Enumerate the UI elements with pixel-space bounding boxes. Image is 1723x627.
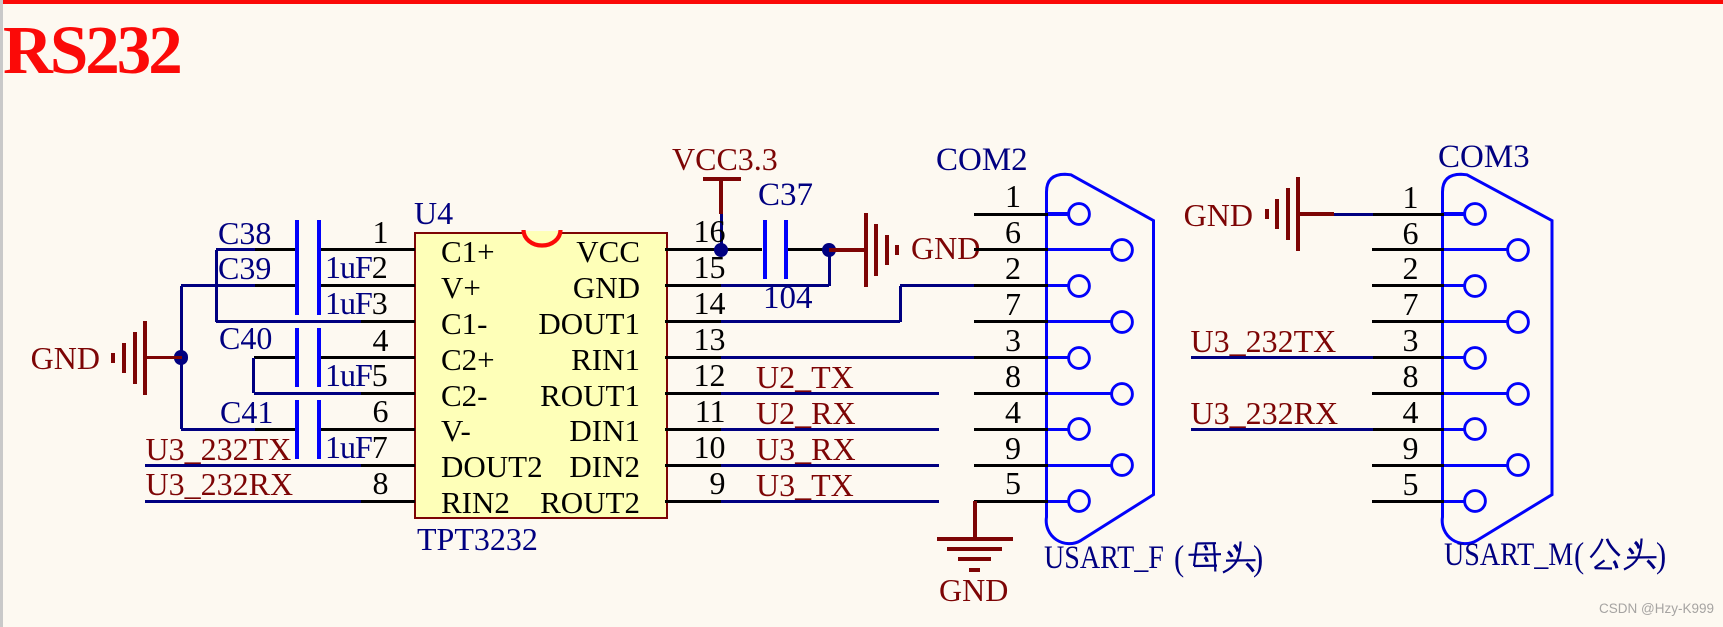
COM2 contact circle row 2 — [1065, 272, 1093, 300]
label C38 — [218, 217, 271, 249]
COM2 pin number 4 — [1005, 396, 1021, 428]
COM2 pin stub row 3 — [974, 320, 1048, 323]
COM3 pin number 3 — [1403, 324, 1419, 356]
COM2 contact circle row 0 — [1065, 200, 1093, 228]
COM3 pin number 2 — [1403, 252, 1419, 284]
value C41 1uF + pin number 7 — [325, 431, 387, 463]
COM3 pin number 9 — [1403, 432, 1419, 464]
value TPT3232 — [417, 523, 538, 555]
connector COM2 outline — [1030, 160, 1170, 560]
ground port middle GND — [829, 248, 864, 252]
COM3 contact circle row 7 — [1504, 451, 1532, 479]
net label U3_232RX right — [1191, 397, 1339, 429]
power port VCC3.3 — [672, 143, 778, 175]
COM2 pin number 7 — [1005, 288, 1021, 320]
pin16 wire C37 to gnd junction — [788, 248, 829, 251]
wire RIN1 to COM2 pin3 — [721, 356, 976, 359]
wire U3_RX — [721, 464, 939, 467]
label C39 — [218, 252, 271, 284]
wire U3_232RX to COM3 pin4 — [1191, 428, 1373, 431]
left pin row6 inner — [321, 428, 415, 431]
ground earth COM2 pin5 — [973, 501, 977, 538]
COM3 contact circle row 4 — [1461, 344, 1489, 372]
designator U4 — [414, 197, 453, 229]
text GND middle — [911, 232, 980, 264]
net label U3_232TX right — [1191, 325, 1337, 357]
COM2 lead row 4 — [1047, 356, 1069, 359]
COM2 contact circle row 7 — [1108, 451, 1136, 479]
wire U3_TX — [721, 500, 939, 503]
label C37 — [758, 179, 813, 212]
wire C2- row — [254, 392, 361, 395]
pin name DIN1 — [569, 415, 640, 446]
wire C1- row — [216, 320, 361, 323]
COM2 pin number 8 — [1005, 360, 1021, 392]
value C39 1uF + pin number 3 — [325, 287, 387, 319]
value C40 1uF + pin number 5 — [325, 359, 387, 391]
left pin row2 outer — [254, 284, 295, 287]
COM3 pin number 1 — [1403, 181, 1419, 213]
net label U3_232RX left — [146, 468, 294, 500]
COM3 contact circle row 2 — [1461, 272, 1489, 300]
left pin row6 outer — [254, 428, 295, 431]
ground bars middle — [864, 213, 868, 287]
pin name ROUT2 — [540, 487, 640, 518]
COM2 pin number 1 — [1005, 180, 1021, 212]
wire V+ row to GND vertical — [181, 284, 255, 287]
COM3 lead row 4 — [1443, 356, 1465, 359]
pin name VCC — [576, 236, 640, 267]
COM3 pin number 4 — [1403, 396, 1419, 428]
label C41 — [220, 396, 273, 428]
COM2 lead row 7 — [1047, 464, 1112, 467]
junction left GND — [174, 350, 188, 364]
VCC3.3 bar — [703, 177, 741, 181]
COM3 contact circle row 6 — [1461, 415, 1489, 443]
ground port left GND — [31, 342, 100, 374]
pin number 14 — [694, 287, 726, 319]
COM2 contact circle row 5 — [1108, 380, 1136, 408]
right pin row2 — [665, 284, 721, 287]
COM2 pin number 3 — [1005, 324, 1021, 356]
wire U3_232RX to RIN2 — [145, 500, 361, 503]
wire U3_232TX to COM3 pin3 — [1191, 356, 1373, 359]
COM2 pin number 6 — [1005, 216, 1021, 248]
COM3 pin number 7 — [1403, 288, 1419, 320]
right pin row7 — [665, 464, 721, 467]
COM3 contact circle row 3 — [1504, 308, 1532, 336]
wire C38 left to vertical — [216, 248, 255, 251]
COM2 lead row 6 — [1047, 428, 1069, 431]
COM2 pin stub row 5 — [974, 392, 1048, 395]
pin name C1- — [441, 308, 488, 339]
wire GND to COM3 pin1 — [1334, 213, 1373, 216]
wire DOUT1 riser — [899, 286, 902, 322]
designator COM3 — [1438, 141, 1530, 174]
COM2 lead row 8 — [1047, 500, 1069, 503]
left pin row5 — [360, 392, 415, 395]
COM3 pin stub row 3 — [1372, 320, 1444, 323]
COM2 lead row 5 — [1047, 392, 1112, 395]
COM2 pin stub row 6 — [974, 428, 1048, 431]
COM2 lead row 3 — [1047, 320, 1112, 323]
pin number 6 — [373, 395, 389, 427]
pin number 15 — [694, 251, 726, 283]
junction VCC/pin16 — [714, 243, 728, 257]
left pin row8 — [360, 500, 415, 503]
capacitor C38 plates — [295, 220, 299, 279]
GND stem COM3 — [1300, 212, 1334, 216]
watermark — [1599, 602, 1714, 616]
pin name ROUT1 — [540, 380, 640, 411]
COM2 lead row 1 — [1047, 248, 1112, 251]
wire GND pin15 — [721, 284, 830, 287]
COM3 pin number 6 — [1403, 217, 1419, 249]
COM3 pin stub row 0 — [1372, 213, 1444, 216]
COM3 lead row 5 — [1443, 392, 1508, 395]
net label U2_RX — [756, 397, 856, 429]
wire U2_RX — [721, 428, 939, 431]
label USART_F(mu tou) — [1044, 542, 1164, 575]
left pin row4 outer — [254, 356, 295, 359]
left pin row4 inner — [321, 356, 415, 359]
pin number 11 — [695, 395, 726, 427]
COM2 pin stub row 0 — [974, 213, 1048, 216]
COM2 pin stub row 4 — [974, 356, 1048, 359]
COM3 lead row 2 — [1443, 284, 1465, 287]
pin number 4 — [373, 324, 389, 356]
hanzi tou — [1220, 541, 1270, 575]
label USART_M(gong tou) — [1444, 539, 1573, 572]
pin name RIN2 — [441, 487, 510, 518]
pin number 13 — [694, 323, 726, 355]
COM2 lead row 2 — [1047, 284, 1069, 287]
wire DOUT1 to COM2 pin2 — [900, 284, 975, 287]
ground bars COM3 — [1296, 177, 1300, 251]
chip notch arc — [521, 230, 563, 250]
left pin row1 outer — [254, 248, 295, 251]
COM3 pin stub row 4 — [1372, 356, 1444, 359]
COM2 pin stub row 7 — [974, 464, 1048, 467]
pin number 9 — [710, 467, 726, 499]
pin number 10 — [694, 431, 726, 463]
IC U4 TPT3232 body — [414, 232, 668, 519]
notch gap cover — [522, 231, 561, 235]
COM3 pin stub row 2 — [1372, 284, 1444, 287]
VCC3.3 stem — [719, 179, 723, 214]
ground bars left — [143, 321, 147, 395]
right pin row3 — [665, 320, 721, 323]
COM2 pin stub row 2 — [974, 284, 1048, 287]
COM3 lead row 7 — [1443, 464, 1508, 467]
junction C37 right — [822, 243, 836, 257]
COM2 contact circle row 1 — [1108, 236, 1136, 264]
COM3 lead row 8 — [1443, 500, 1465, 503]
COM3 lead row 6 — [1443, 428, 1465, 431]
COM3 lead row 0 — [1443, 212, 1465, 215]
wire riser pin15 to junction — [828, 250, 831, 286]
pin name DOUT1 — [538, 308, 640, 339]
left pin row1 inner — [321, 248, 415, 251]
wire vertical C2+ to C2- — [252, 358, 255, 394]
designator COM2 — [936, 144, 1028, 177]
hanzi gong — [1588, 537, 1628, 573]
left gray strip — [0, 0, 3, 627]
pin name C1+ — [441, 236, 495, 267]
COM2 pin stub row 1 — [974, 248, 1048, 251]
capacitor C41 plates — [295, 400, 299, 459]
top red rule — [3, 0, 1723, 4]
COM2 pin number 5 — [1005, 467, 1021, 499]
wire VCC to pin16 — [720, 214, 723, 250]
wire vertical C1+ to C1- — [215, 250, 218, 322]
net label U2_TX — [756, 361, 854, 393]
left pin row7 — [360, 464, 415, 467]
pin name V- — [441, 415, 471, 446]
pin number 8 — [373, 467, 389, 499]
pin name RIN1 — [571, 344, 640, 375]
COM3 contact circle row 1 — [1504, 236, 1532, 264]
right pin row6 — [665, 428, 721, 431]
COM2 contact circle row 3 — [1108, 308, 1136, 336]
net label U3_RX — [756, 433, 856, 465]
COM3 pin stub row 6 — [1372, 428, 1444, 431]
COM2 contact circle row 4 — [1065, 344, 1093, 372]
wire U2_TX — [721, 392, 939, 395]
COM3 pin number 5 — [1403, 468, 1419, 500]
COM3 lead row 3 — [1443, 320, 1508, 323]
COM2 pin number 2 — [1005, 252, 1021, 284]
COM3 pin stub row 8 — [1372, 500, 1444, 503]
COM3 pin stub row 1 — [1372, 248, 1444, 251]
right pin row4 — [665, 356, 721, 359]
wire V- row to GND vertical — [181, 428, 255, 431]
net label U3_TX — [756, 469, 854, 501]
COM2 contact circle row 6 — [1065, 415, 1093, 443]
pin16 wire chip to C37 — [665, 248, 762, 251]
ground port COM3 GND — [1184, 199, 1253, 231]
label C40 — [219, 322, 272, 354]
pin name C2- — [441, 380, 488, 411]
pin number 12 — [694, 359, 726, 391]
capacitor C37 plates — [763, 220, 767, 279]
COM3 pin stub row 7 — [1372, 464, 1444, 467]
COM3 contact circle row 0 — [1461, 200, 1489, 228]
capacitor C40 plates — [295, 328, 299, 387]
COM2 contact circle row 8 — [1065, 487, 1093, 515]
net label U3_232TX left — [146, 433, 292, 465]
pin number 16 — [694, 215, 726, 247]
COM3 contact circle row 5 — [1504, 380, 1532, 408]
wire U3_232TX to DOUT2 — [145, 464, 361, 467]
value 104 — [763, 282, 813, 315]
pin name V+ — [441, 272, 481, 303]
hanzi mu — [1186, 541, 1224, 575]
COM2 pin stub row 8 — [974, 500, 1048, 503]
COM2 pin number 9 — [1005, 432, 1021, 464]
hanzi tou 2 — [1621, 538, 1671, 574]
title RS232 — [3, 16, 180, 85]
COM3 pin stub row 5 — [1372, 392, 1444, 395]
pin number 1 — [373, 216, 389, 248]
right pin row5 — [665, 392, 721, 395]
capacitor C39 plates — [295, 256, 299, 315]
left pin row3 — [360, 320, 415, 323]
wire GND vertical — [180, 286, 183, 430]
connector COM3 outline — [1426, 160, 1566, 560]
COM3 lead row 1 — [1443, 248, 1508, 251]
pin name DOUT2 — [441, 451, 543, 482]
value C38 1uF + pin number 2 — [325, 251, 387, 283]
pin name DIN2 — [569, 451, 640, 482]
COM3 contact circle row 8 — [1461, 487, 1489, 515]
pin name GND — [573, 272, 640, 303]
right pin row8 — [665, 500, 721, 503]
left pin row2 inner — [321, 284, 415, 287]
pin name C2+ — [441, 344, 495, 375]
COM2 lead row 0 — [1047, 212, 1069, 215]
text GND bottom — [939, 574, 1008, 606]
COM3 pin number 8 — [1403, 360, 1419, 392]
wire DOUT1 — [721, 320, 901, 323]
